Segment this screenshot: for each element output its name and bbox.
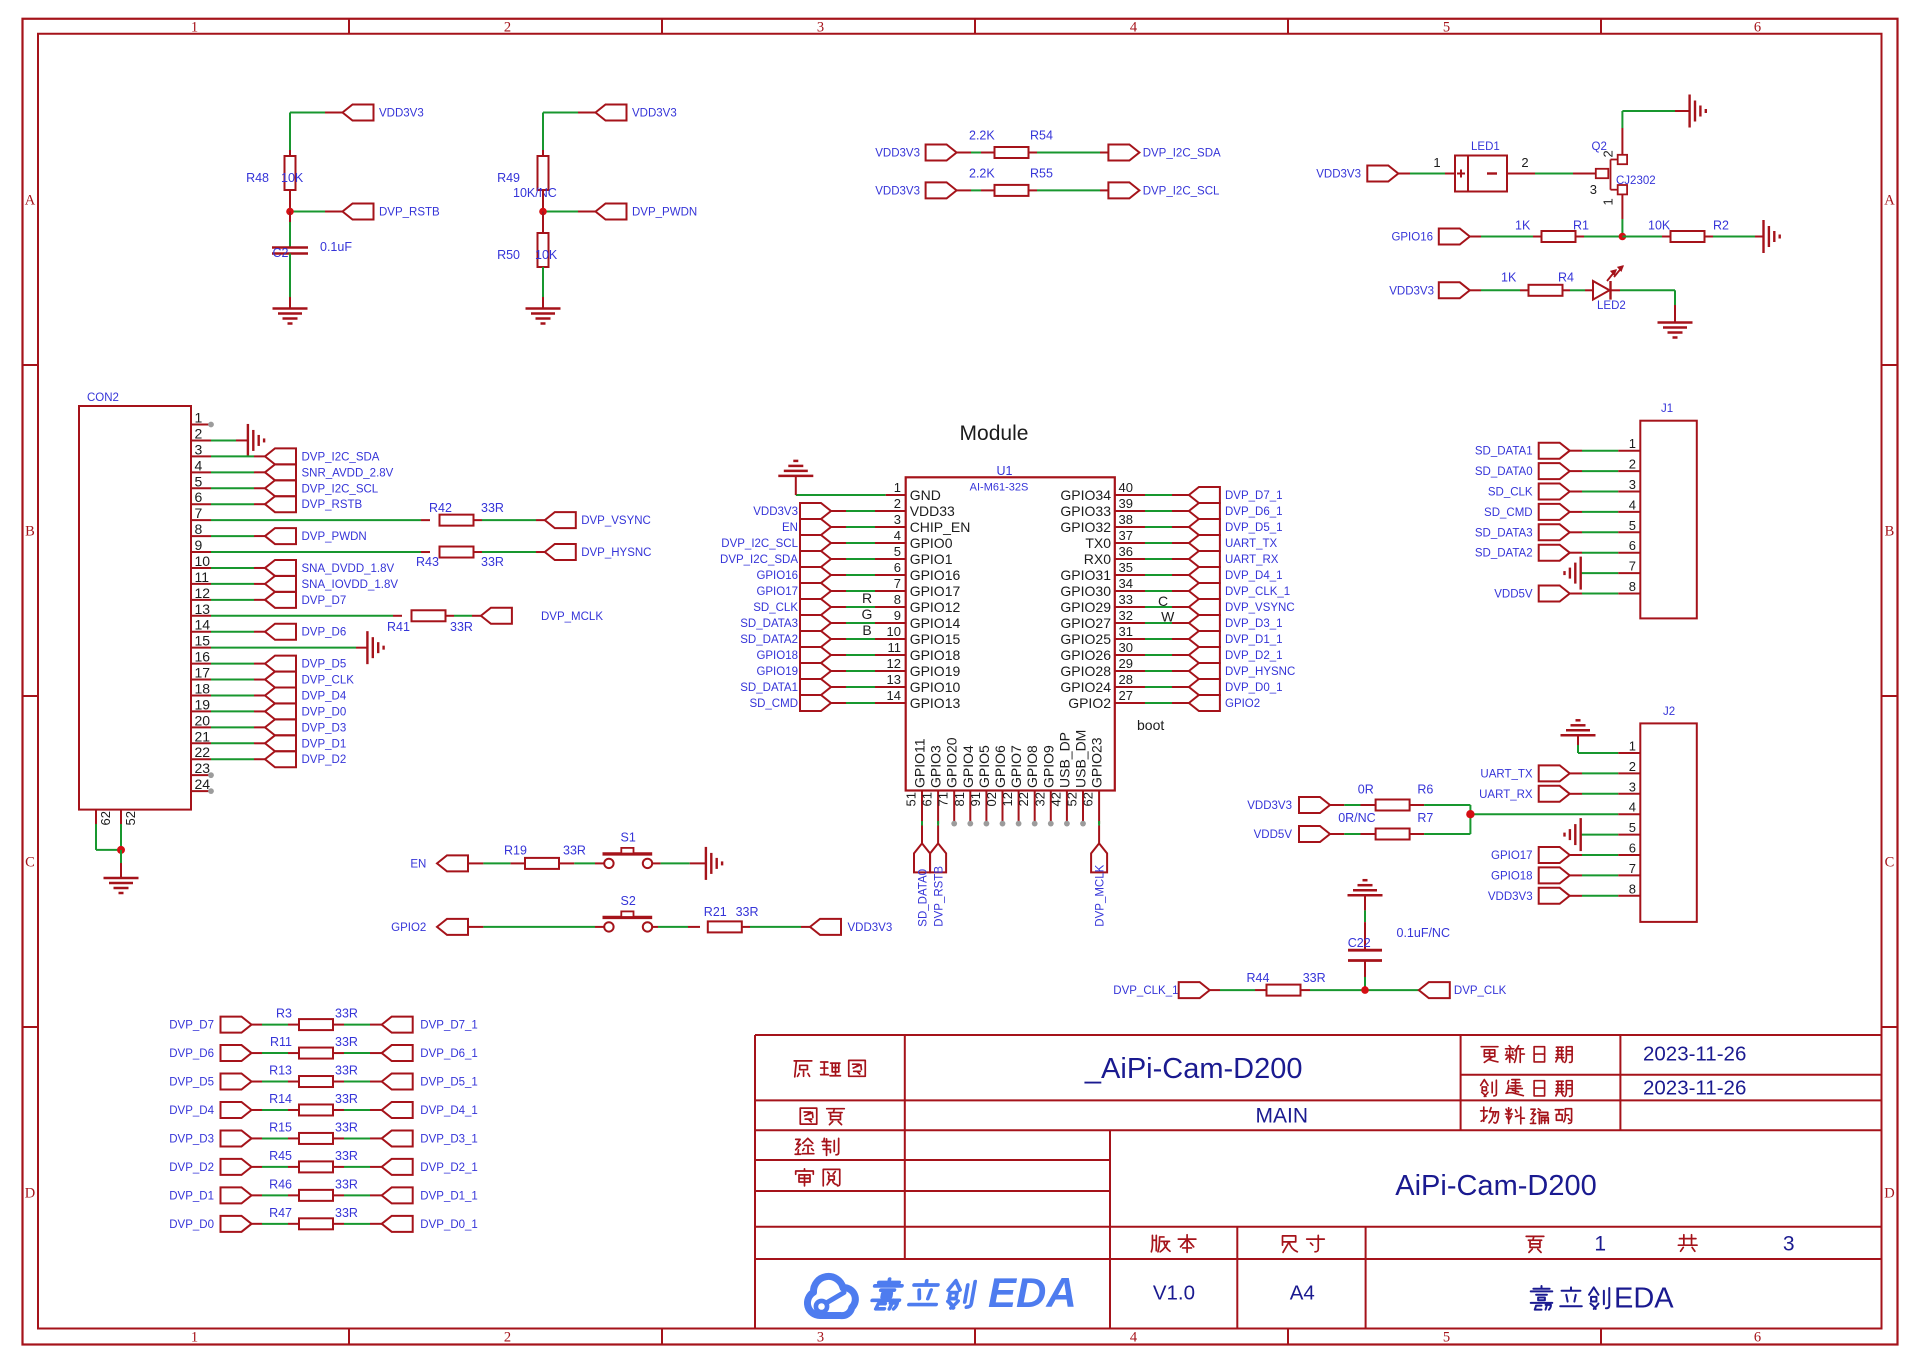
svg-text:3: 3 bbox=[817, 1329, 824, 1345]
svg-text:U1: U1 bbox=[997, 464, 1013, 478]
svg-text:2023-11-26: 2023-11-26 bbox=[1643, 1043, 1746, 1066]
svg-text:5: 5 bbox=[894, 544, 901, 559]
svg-text:10: 10 bbox=[887, 624, 901, 639]
svg-text:GPIO2: GPIO2 bbox=[391, 922, 426, 934]
svg-text:7: 7 bbox=[894, 576, 901, 591]
svg-text:D: D bbox=[25, 1186, 35, 1202]
svg-text:RX0: RX0 bbox=[1084, 551, 1111, 567]
svg-text:19: 19 bbox=[195, 696, 211, 712]
svg-text:R43: R43 bbox=[416, 555, 439, 569]
svg-text:DVP_I2C_SCL: DVP_I2C_SCL bbox=[302, 483, 379, 495]
svg-text:3: 3 bbox=[1629, 779, 1636, 794]
svg-text:R48: R48 bbox=[246, 171, 269, 185]
svg-text:1: 1 bbox=[1629, 436, 1636, 451]
svg-text:DVP_I2C_SDA: DVP_I2C_SDA bbox=[1143, 148, 1221, 160]
svg-text:USB_DM: USB_DM bbox=[1073, 730, 1089, 788]
svg-text:0.1uF/NC: 0.1uF/NC bbox=[1397, 926, 1451, 940]
svg-text:2: 2 bbox=[504, 19, 511, 35]
svg-text:81: 81 bbox=[952, 792, 967, 806]
svg-text:D: D bbox=[1884, 1186, 1894, 1202]
svg-text:GPIO14: GPIO14 bbox=[910, 615, 961, 631]
svg-text:R19: R19 bbox=[504, 843, 527, 857]
svg-text:1: 1 bbox=[1629, 739, 1636, 754]
svg-text:7: 7 bbox=[1629, 861, 1636, 876]
svg-text:DVP_CLK: DVP_CLK bbox=[302, 675, 355, 687]
svg-text:EN: EN bbox=[782, 522, 798, 534]
svg-text:DVP_I2C_SDA: DVP_I2C_SDA bbox=[302, 451, 380, 463]
svg-text:R14: R14 bbox=[269, 1092, 292, 1106]
svg-text:4: 4 bbox=[195, 457, 203, 473]
svg-text:14: 14 bbox=[195, 617, 211, 633]
svg-text:SNA_DVDD_1.8V: SNA_DVDD_1.8V bbox=[302, 563, 395, 575]
svg-text:12: 12 bbox=[887, 656, 901, 671]
svg-text:GPIO18: GPIO18 bbox=[1491, 870, 1533, 882]
svg-text:1K: 1K bbox=[1515, 219, 1531, 233]
svg-text:S2: S2 bbox=[621, 894, 636, 908]
svg-text:Module: Module bbox=[960, 422, 1029, 445]
svg-text:VDD3V3: VDD3V3 bbox=[848, 922, 893, 934]
svg-text:GPIO4: GPIO4 bbox=[960, 745, 976, 788]
svg-text:GPIO9: GPIO9 bbox=[1040, 745, 1056, 788]
svg-text:DVP_D2: DVP_D2 bbox=[169, 1162, 214, 1174]
svg-text:6: 6 bbox=[195, 489, 203, 505]
svg-text:DVP_D2_1: DVP_D2_1 bbox=[420, 1162, 478, 1174]
svg-text:DVP_D4_1: DVP_D4_1 bbox=[420, 1105, 478, 1117]
svg-text:TX0: TX0 bbox=[1085, 535, 1111, 551]
svg-text:DVP_D1_1: DVP_D1_1 bbox=[1225, 634, 1283, 646]
svg-text:6: 6 bbox=[894, 560, 901, 575]
svg-text:13: 13 bbox=[887, 672, 901, 687]
svg-text:91: 91 bbox=[968, 792, 983, 806]
svg-text:32: 32 bbox=[1119, 608, 1133, 623]
svg-text:SD_CMD: SD_CMD bbox=[1484, 507, 1533, 519]
svg-text:8: 8 bbox=[1629, 881, 1636, 896]
svg-text:3: 3 bbox=[894, 512, 901, 527]
svg-text:J2: J2 bbox=[1663, 706, 1675, 718]
svg-text:DVP_D5_1: DVP_D5_1 bbox=[420, 1077, 478, 1089]
svg-text:SD_CLK: SD_CLK bbox=[753, 602, 798, 614]
svg-text:GPIO29: GPIO29 bbox=[1060, 599, 1111, 615]
svg-text:DVP_MCLK: DVP_MCLK bbox=[541, 611, 603, 623]
svg-text:2: 2 bbox=[1521, 155, 1528, 170]
svg-text:4: 4 bbox=[1629, 800, 1636, 815]
svg-text:boot: boot bbox=[1137, 717, 1164, 733]
svg-text:3: 3 bbox=[1590, 182, 1597, 197]
svg-text:2.2K: 2.2K bbox=[969, 166, 995, 180]
svg-text:33R: 33R bbox=[335, 1120, 358, 1134]
svg-text:GPIO30: GPIO30 bbox=[1060, 583, 1111, 599]
svg-text:37: 37 bbox=[1119, 528, 1133, 543]
svg-text:DVP_D5: DVP_D5 bbox=[169, 1077, 214, 1089]
svg-text:33: 33 bbox=[1119, 592, 1133, 607]
svg-text:GPIO12: GPIO12 bbox=[910, 599, 961, 615]
svg-text:6: 6 bbox=[1754, 19, 1761, 35]
svg-text:VDD3V3: VDD3V3 bbox=[875, 148, 920, 160]
svg-text:4: 4 bbox=[1629, 497, 1636, 512]
svg-text:33R: 33R bbox=[335, 1149, 358, 1163]
svg-text:DVP_D3: DVP_D3 bbox=[169, 1133, 214, 1145]
svg-text:DVP_CLK_1: DVP_CLK_1 bbox=[1113, 985, 1178, 997]
svg-text:UART_TX: UART_TX bbox=[1480, 768, 1533, 780]
svg-text:GPIO17: GPIO17 bbox=[1491, 850, 1533, 862]
svg-text:R41: R41 bbox=[387, 620, 410, 634]
svg-text:B: B bbox=[25, 524, 35, 540]
svg-text:AI-M61-32S: AI-M61-32S bbox=[970, 482, 1029, 494]
svg-text:DVP_D0: DVP_D0 bbox=[169, 1219, 214, 1231]
svg-text:61: 61 bbox=[920, 792, 935, 806]
svg-text:R11: R11 bbox=[270, 1035, 292, 1049]
svg-text:USB_DP: USB_DP bbox=[1056, 732, 1072, 788]
svg-text:DVP_D7_1: DVP_D7_1 bbox=[420, 1020, 478, 1032]
svg-text:GPIO0: GPIO0 bbox=[910, 535, 953, 551]
svg-text:V1.0: V1.0 bbox=[1153, 1282, 1195, 1305]
svg-text:SNR_AVDD_2.8V: SNR_AVDD_2.8V bbox=[302, 467, 394, 479]
svg-text:39: 39 bbox=[1119, 496, 1133, 511]
svg-text:22: 22 bbox=[1016, 792, 1031, 806]
svg-text:C: C bbox=[1158, 593, 1168, 609]
svg-text:71: 71 bbox=[936, 792, 951, 806]
svg-text:SD_DATA3: SD_DATA3 bbox=[1475, 527, 1533, 539]
svg-text:33R: 33R bbox=[335, 1177, 358, 1191]
svg-text:DVP_D5_1: DVP_D5_1 bbox=[1225, 522, 1283, 534]
svg-text:DVP_D0_1: DVP_D0_1 bbox=[420, 1219, 478, 1231]
svg-text:EDA: EDA bbox=[988, 1269, 1077, 1316]
svg-text:SNA_IOVDD_1.8V: SNA_IOVDD_1.8V bbox=[302, 579, 399, 591]
svg-text:J1: J1 bbox=[1661, 403, 1673, 415]
svg-text:GPIO33: GPIO33 bbox=[1060, 503, 1111, 519]
svg-text:DVP_D1_1: DVP_D1_1 bbox=[420, 1190, 478, 1202]
svg-text:GPIO16: GPIO16 bbox=[910, 567, 961, 583]
svg-text:EDA: EDA bbox=[1614, 1283, 1674, 1315]
svg-text:R13: R13 bbox=[269, 1064, 292, 1078]
svg-text:2: 2 bbox=[1629, 457, 1636, 472]
svg-text:2: 2 bbox=[1601, 150, 1616, 157]
svg-text:36: 36 bbox=[1119, 544, 1133, 559]
svg-text:1K: 1K bbox=[1501, 270, 1517, 284]
svg-text:62: 62 bbox=[98, 811, 113, 825]
svg-text:5: 5 bbox=[1629, 518, 1636, 533]
svg-text:33R: 33R bbox=[736, 905, 759, 919]
svg-text:5: 5 bbox=[195, 473, 203, 489]
svg-text:10K/NC: 10K/NC bbox=[513, 186, 557, 200]
svg-text:1: 1 bbox=[1433, 155, 1440, 170]
svg-text:GPIO19: GPIO19 bbox=[756, 666, 798, 678]
svg-text:1: 1 bbox=[191, 1329, 198, 1345]
svg-text:4: 4 bbox=[1130, 1329, 1138, 1345]
svg-text:G: G bbox=[862, 606, 873, 622]
svg-text:GPIO34: GPIO34 bbox=[1060, 487, 1111, 503]
svg-text:R46: R46 bbox=[269, 1177, 292, 1191]
svg-text:DVP_VSYNC: DVP_VSYNC bbox=[1225, 602, 1295, 614]
svg-text:DVP_I2C_SCL: DVP_I2C_SCL bbox=[1143, 185, 1220, 197]
svg-text:1: 1 bbox=[195, 410, 203, 426]
svg-text:DVP_PWDN: DVP_PWDN bbox=[302, 531, 367, 543]
svg-text:DVP_D1: DVP_D1 bbox=[302, 738, 347, 750]
svg-text:CHIP_EN: CHIP_EN bbox=[910, 519, 971, 535]
svg-text:0R/NC: 0R/NC bbox=[1338, 811, 1376, 825]
svg-text:11: 11 bbox=[195, 569, 210, 585]
svg-text:15: 15 bbox=[195, 633, 211, 649]
svg-text:_AiPi-Cam-D200: _AiPi-Cam-D200 bbox=[1084, 1053, 1303, 1085]
svg-text:GPIO6: GPIO6 bbox=[992, 745, 1008, 788]
svg-text:5: 5 bbox=[1443, 19, 1450, 35]
svg-text:VDD3V3: VDD3V3 bbox=[1389, 285, 1434, 297]
svg-text:DVP_D2: DVP_D2 bbox=[302, 754, 347, 766]
svg-text:DVP_RSTB: DVP_RSTB bbox=[302, 499, 363, 511]
svg-text:R21: R21 bbox=[704, 905, 727, 919]
svg-text:DVP_D3: DVP_D3 bbox=[302, 722, 347, 734]
svg-text:DVP_D6_1: DVP_D6_1 bbox=[1225, 506, 1283, 518]
svg-text:GPIO28: GPIO28 bbox=[1060, 663, 1111, 679]
svg-text:R47: R47 bbox=[269, 1206, 292, 1220]
svg-text:CJ2302: CJ2302 bbox=[1616, 175, 1656, 187]
svg-text:VDD5V: VDD5V bbox=[1254, 829, 1293, 841]
svg-text:GPIO19: GPIO19 bbox=[910, 663, 961, 679]
svg-text:GPIO11: GPIO11 bbox=[912, 738, 928, 788]
svg-text:R3: R3 bbox=[276, 1007, 292, 1021]
svg-text:DVP_D0_1: DVP_D0_1 bbox=[1225, 682, 1283, 694]
svg-text:VDD33: VDD33 bbox=[910, 503, 955, 519]
svg-text:SD_DATA1: SD_DATA1 bbox=[1475, 446, 1533, 458]
svg-text:22: 22 bbox=[195, 744, 211, 760]
svg-text:12: 12 bbox=[1000, 792, 1015, 806]
svg-text:20: 20 bbox=[195, 712, 211, 728]
svg-text:2.2K: 2.2K bbox=[969, 129, 995, 143]
svg-text:B: B bbox=[862, 622, 871, 638]
svg-text:DVP_D7_1: DVP_D7_1 bbox=[1225, 490, 1283, 502]
svg-text:DVP_CLK_1: DVP_CLK_1 bbox=[1225, 586, 1290, 598]
svg-text:34: 34 bbox=[1119, 576, 1133, 591]
svg-text:GPIO5: GPIO5 bbox=[976, 745, 992, 788]
svg-text:GPIO31: GPIO31 bbox=[1060, 567, 1111, 583]
svg-text:GPIO8: GPIO8 bbox=[1024, 745, 1040, 788]
svg-text:VDD3V3: VDD3V3 bbox=[753, 506, 798, 518]
svg-text:33R: 33R bbox=[563, 843, 586, 857]
svg-text:2: 2 bbox=[1629, 759, 1636, 774]
svg-text:9: 9 bbox=[894, 608, 901, 623]
svg-text:GPIO13: GPIO13 bbox=[910, 695, 961, 711]
svg-text:2023-11-26: 2023-11-26 bbox=[1643, 1077, 1746, 1100]
svg-text:DVP_D0: DVP_D0 bbox=[302, 706, 347, 718]
svg-text:R4: R4 bbox=[1558, 270, 1574, 284]
svg-text:52: 52 bbox=[1065, 792, 1080, 806]
svg-text:SD_DATA0: SD_DATA0 bbox=[918, 869, 930, 927]
svg-text:23: 23 bbox=[195, 760, 211, 776]
svg-text:3: 3 bbox=[1783, 1232, 1795, 1255]
svg-text:4: 4 bbox=[894, 528, 901, 543]
svg-text:R44: R44 bbox=[1247, 971, 1270, 985]
svg-text:VDD3V3: VDD3V3 bbox=[632, 108, 677, 120]
svg-text:R45: R45 bbox=[269, 1149, 292, 1163]
svg-text:GPIO18: GPIO18 bbox=[756, 650, 798, 662]
svg-text:GPIO27: GPIO27 bbox=[1060, 615, 1111, 631]
svg-text:52: 52 bbox=[123, 811, 138, 825]
svg-text:R: R bbox=[862, 590, 872, 606]
svg-text:GPIO16: GPIO16 bbox=[1391, 232, 1433, 244]
svg-text:GPIO10: GPIO10 bbox=[910, 679, 961, 695]
svg-text:GPIO24: GPIO24 bbox=[1060, 679, 1111, 695]
svg-text:8: 8 bbox=[195, 521, 203, 537]
svg-text:38: 38 bbox=[1119, 512, 1133, 527]
svg-text:GPIO32: GPIO32 bbox=[1060, 519, 1111, 535]
svg-text:DVP_CLK: DVP_CLK bbox=[1454, 985, 1507, 997]
svg-text:33R: 33R bbox=[335, 1092, 358, 1106]
svg-text:33R: 33R bbox=[450, 620, 473, 634]
svg-text:1: 1 bbox=[1601, 198, 1616, 205]
svg-text:GPIO16: GPIO16 bbox=[756, 570, 798, 582]
svg-text:C: C bbox=[1885, 855, 1895, 871]
svg-text:24: 24 bbox=[195, 776, 211, 792]
svg-text:0.1uF: 0.1uF bbox=[320, 240, 352, 254]
svg-text:16: 16 bbox=[195, 649, 211, 665]
svg-text:DVP_RSTB: DVP_RSTB bbox=[379, 207, 440, 219]
svg-text:7: 7 bbox=[195, 505, 203, 521]
svg-text:17: 17 bbox=[195, 665, 211, 681]
svg-text:8: 8 bbox=[1629, 579, 1636, 594]
svg-text:42: 42 bbox=[1048, 792, 1063, 806]
svg-text:6: 6 bbox=[1629, 841, 1636, 856]
svg-text:VDD3V3: VDD3V3 bbox=[1316, 169, 1361, 181]
svg-text:29: 29 bbox=[1119, 656, 1133, 671]
svg-text:DVP_D7: DVP_D7 bbox=[302, 595, 347, 607]
svg-text:GPIO23: GPIO23 bbox=[1089, 737, 1105, 788]
svg-text:2: 2 bbox=[195, 425, 203, 441]
svg-text:11: 11 bbox=[888, 640, 902, 655]
svg-text:33R: 33R bbox=[335, 1064, 358, 1078]
svg-text:UART_TX: UART_TX bbox=[1225, 538, 1278, 550]
svg-text:14: 14 bbox=[887, 688, 901, 703]
svg-text:27: 27 bbox=[1119, 688, 1133, 703]
svg-text:5: 5 bbox=[1629, 820, 1636, 835]
svg-text:6: 6 bbox=[1754, 1329, 1761, 1345]
svg-text:R2: R2 bbox=[1713, 219, 1729, 233]
svg-text:DVP_HYSNC: DVP_HYSNC bbox=[1225, 666, 1295, 678]
svg-text:GPIO2: GPIO2 bbox=[1225, 698, 1260, 710]
svg-text:DVP_D2_1: DVP_D2_1 bbox=[1225, 650, 1283, 662]
svg-text:10K: 10K bbox=[535, 248, 558, 262]
svg-text:1: 1 bbox=[894, 480, 901, 495]
svg-text:13: 13 bbox=[195, 601, 211, 617]
svg-text:3: 3 bbox=[1629, 477, 1636, 492]
svg-text:DVP_D4_1: DVP_D4_1 bbox=[1225, 570, 1283, 582]
svg-text:33R: 33R bbox=[1303, 971, 1326, 985]
svg-text:33R: 33R bbox=[335, 1007, 358, 1021]
svg-text:DVP_PWDN: DVP_PWDN bbox=[632, 207, 697, 219]
svg-text:GPIO17: GPIO17 bbox=[756, 586, 798, 598]
svg-text:33R: 33R bbox=[335, 1206, 358, 1220]
svg-text:S1: S1 bbox=[621, 830, 636, 844]
svg-text:GPIO7: GPIO7 bbox=[1008, 745, 1024, 788]
svg-text:DVP_I2C_SDA: DVP_I2C_SDA bbox=[720, 554, 798, 566]
svg-text:VDD5V: VDD5V bbox=[1494, 589, 1533, 601]
svg-text:GPIO2: GPIO2 bbox=[1068, 695, 1111, 711]
svg-text:62: 62 bbox=[1081, 792, 1096, 806]
svg-text:DVP_D3_1: DVP_D3_1 bbox=[1225, 618, 1283, 630]
svg-text:7: 7 bbox=[1629, 559, 1636, 574]
svg-text:A: A bbox=[25, 193, 36, 209]
svg-text:GND: GND bbox=[910, 487, 941, 503]
svg-text:GPIO25: GPIO25 bbox=[1060, 631, 1111, 647]
svg-text:A4: A4 bbox=[1290, 1282, 1315, 1305]
svg-text:R15: R15 bbox=[269, 1120, 292, 1134]
svg-text:3: 3 bbox=[195, 441, 203, 457]
svg-text:VDD3V3: VDD3V3 bbox=[1247, 800, 1292, 812]
svg-text:35: 35 bbox=[1119, 560, 1133, 575]
svg-text:R42: R42 bbox=[429, 501, 452, 515]
svg-text:GPIO15: GPIO15 bbox=[910, 631, 961, 647]
svg-text:R49: R49 bbox=[497, 171, 520, 185]
svg-text:R50: R50 bbox=[497, 248, 520, 262]
svg-text:DVP_HYSNC: DVP_HYSNC bbox=[581, 547, 651, 559]
svg-text:GPIO18: GPIO18 bbox=[910, 647, 961, 663]
svg-text:DVP_D4: DVP_D4 bbox=[169, 1105, 214, 1117]
svg-text:C: C bbox=[25, 855, 35, 871]
svg-text:SD_DATA2: SD_DATA2 bbox=[1475, 548, 1533, 560]
svg-text:GPIO3: GPIO3 bbox=[928, 745, 944, 788]
svg-text:SD_DATA3: SD_DATA3 bbox=[740, 618, 798, 630]
svg-text:51: 51 bbox=[904, 792, 919, 806]
svg-text:SD_CLK: SD_CLK bbox=[1488, 487, 1533, 499]
svg-text:DVP_I2C_SCL: DVP_I2C_SCL bbox=[721, 538, 798, 550]
svg-text:AiPi-Cam-D200: AiPi-Cam-D200 bbox=[1395, 1170, 1596, 1202]
svg-text:DVP_MCLK: DVP_MCLK bbox=[1095, 864, 1107, 926]
svg-text:1: 1 bbox=[191, 19, 198, 35]
svg-text:18: 18 bbox=[195, 680, 211, 696]
svg-text:10: 10 bbox=[195, 553, 211, 569]
svg-text:MAIN: MAIN bbox=[1256, 1104, 1309, 1127]
svg-text:EN: EN bbox=[410, 858, 426, 870]
svg-text:GPIO17: GPIO17 bbox=[910, 583, 961, 599]
svg-text:02: 02 bbox=[984, 792, 999, 806]
svg-text:6: 6 bbox=[1629, 538, 1636, 553]
svg-text:R54: R54 bbox=[1030, 129, 1053, 143]
svg-text:0R: 0R bbox=[1358, 783, 1374, 797]
svg-text:10K: 10K bbox=[1648, 219, 1671, 233]
svg-text:40: 40 bbox=[1119, 480, 1133, 495]
svg-text:DVP_D1: DVP_D1 bbox=[169, 1190, 214, 1202]
svg-text:3: 3 bbox=[817, 19, 824, 35]
svg-text:C22: C22 bbox=[1348, 936, 1371, 950]
svg-text:B: B bbox=[1885, 524, 1895, 540]
svg-text:DVP_D7: DVP_D7 bbox=[169, 1020, 214, 1032]
svg-text:28: 28 bbox=[1119, 672, 1133, 687]
svg-text:4: 4 bbox=[1130, 19, 1138, 35]
svg-text:C2: C2 bbox=[273, 246, 289, 260]
svg-text:21: 21 bbox=[195, 728, 211, 744]
svg-text:9: 9 bbox=[195, 537, 203, 553]
svg-text:31: 31 bbox=[1119, 624, 1133, 639]
svg-text:DVP_D4: DVP_D4 bbox=[302, 690, 347, 702]
svg-text:30: 30 bbox=[1119, 640, 1133, 655]
svg-text:DVP_D6: DVP_D6 bbox=[302, 627, 347, 639]
svg-text:DVP_RSTB: DVP_RSTB bbox=[934, 866, 946, 927]
svg-text:GPIO1: GPIO1 bbox=[910, 551, 953, 567]
svg-text:8: 8 bbox=[894, 592, 901, 607]
svg-text:SD_CMD: SD_CMD bbox=[749, 698, 798, 710]
svg-text:DVP_D6: DVP_D6 bbox=[169, 1048, 214, 1060]
svg-text:VDD3V3: VDD3V3 bbox=[1488, 891, 1533, 903]
svg-text:UART_RX: UART_RX bbox=[1225, 554, 1279, 566]
svg-text:LED2: LED2 bbox=[1597, 300, 1626, 312]
svg-text:SD_DATA0: SD_DATA0 bbox=[1475, 466, 1533, 478]
svg-text:2: 2 bbox=[504, 1329, 511, 1345]
svg-text:32: 32 bbox=[1032, 792, 1047, 806]
svg-text:DVP_D6_1: DVP_D6_1 bbox=[420, 1048, 478, 1060]
svg-text:R1: R1 bbox=[1573, 219, 1589, 233]
svg-text:DVP_VSYNC: DVP_VSYNC bbox=[581, 515, 651, 527]
svg-text:5: 5 bbox=[1443, 1329, 1450, 1345]
svg-text:SD_DATA1: SD_DATA1 bbox=[740, 682, 798, 694]
